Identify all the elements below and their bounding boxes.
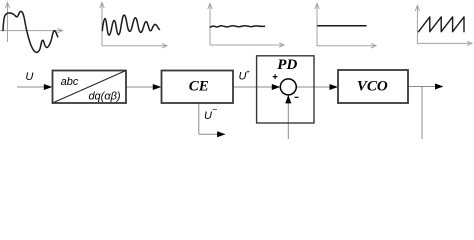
svg-text:+: + — [246, 69, 250, 76]
svg-text:−: − — [212, 105, 217, 115]
svg-text:dq(αβ): dq(αβ) — [88, 91, 120, 103]
svg-text:VCO: VCO — [357, 78, 388, 94]
svg-text:U: U — [204, 110, 212, 122]
svg-text:PD: PD — [277, 57, 297, 73]
svg-text:CE: CE — [189, 79, 209, 95]
svg-text:abc: abc — [61, 76, 79, 88]
svg-text:U: U — [25, 71, 33, 83]
